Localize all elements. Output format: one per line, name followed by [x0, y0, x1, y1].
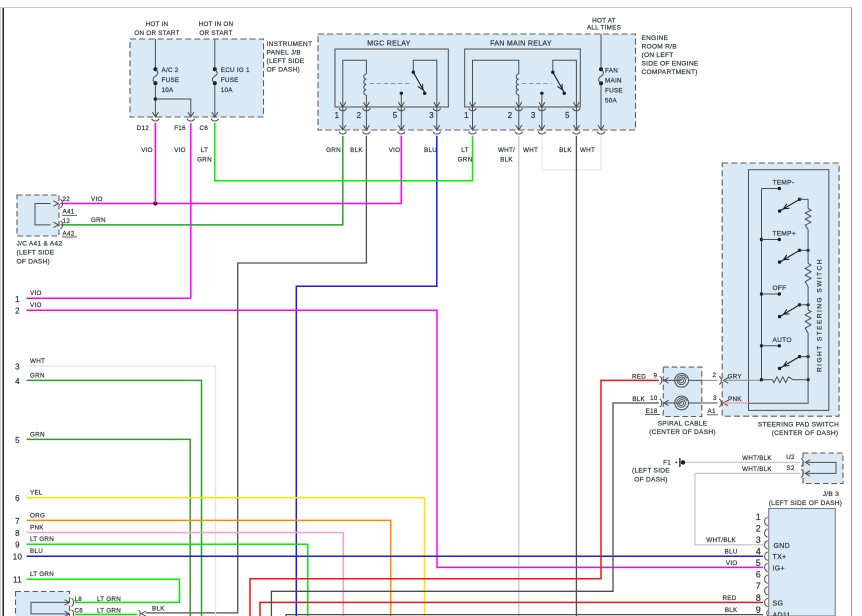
OFF switch blade	[778, 315, 781, 318]
pin 6 bracket	[765, 575, 768, 583]
wire LT GRN connector11 to J/C L8	[27, 579, 180, 602]
svg-text:GRN: GRN	[91, 217, 106, 224]
connector arrow F16	[188, 112, 194, 117]
svg-text:5: 5	[15, 436, 20, 445]
connector arrow C6	[212, 112, 218, 117]
TEMP+ switch blade	[778, 260, 781, 263]
svg-text:BLU: BLU	[424, 147, 437, 154]
pin 5 bracket	[765, 563, 768, 571]
FAN relay switch blade	[553, 72, 564, 92]
MGC relay switch blade	[413, 72, 424, 92]
MGC relay common pin 3	[413, 60, 437, 107]
svg-text:L8: L8	[75, 596, 83, 603]
pin U2 connector	[801, 458, 803, 466]
svg-text:SIDE OF ENGINE: SIDE OF ENGINE	[642, 61, 699, 68]
svg-text:11: 11	[13, 576, 22, 585]
svg-text:BLU: BLU	[725, 549, 738, 556]
resistor chain top link	[807, 199, 809, 208]
spiral coil 2	[675, 396, 689, 410]
svg-text:HOT IN: HOT IN	[146, 21, 169, 28]
svg-text:VIO: VIO	[91, 196, 103, 203]
pin 12 connector	[54, 222, 59, 227]
svg-text:WHT: WHT	[30, 358, 45, 365]
svg-text:4: 4	[756, 547, 761, 557]
svg-text:ORG: ORG	[30, 512, 45, 519]
svg-text:VIO: VIO	[389, 147, 401, 154]
svg-text:(CENTER OF DASH): (CENTER OF DASH)	[649, 429, 716, 436]
junction connector J/C L8-C6 box	[16, 592, 70, 616]
svg-text:(ON LEFT: (ON LEFT	[642, 52, 674, 59]
svg-text:8: 8	[756, 593, 761, 603]
svg-text:BLK: BLK	[725, 607, 738, 614]
svg-text:9: 9	[15, 541, 20, 550]
wire LT GRN from J/C C6	[75, 613, 138, 615]
svg-text:2: 2	[756, 524, 761, 534]
wire GRN MGC pin1 to J/C A42 pin 12	[61, 136, 343, 225]
wire GRY spiral to steering pin2	[702, 379, 718, 381]
svg-text:LT: LT	[461, 147, 468, 154]
spiral coil 1	[675, 374, 689, 388]
wire GRN connector4 down off page	[27, 380, 202, 616]
svg-text:BLU: BLU	[30, 548, 43, 555]
svg-text:FAN MAIN RELAY: FAN MAIN RELAY	[490, 41, 552, 48]
svg-text:FUSE: FUSE	[162, 77, 180, 84]
MGC pin stubs to R/B edge	[342, 107, 344, 130]
wire WHT/BLK FAN pin2 down off page	[518, 136, 520, 616]
pin 2 bracket	[765, 529, 768, 537]
MGC relay coil	[364, 74, 367, 95]
wire below A/C 2 fuse	[154, 85, 156, 117]
svg-text:GRN: GRN	[197, 157, 212, 164]
FAN relay coil branch pin 1	[473, 60, 519, 107]
svg-text:3: 3	[429, 111, 434, 120]
svg-text:BLK: BLK	[632, 396, 645, 403]
wire BLK MGC pin2 down-left-down to J/C C6	[146, 136, 367, 613]
MGC relay fixed contact pin 5	[400, 92, 403, 95]
svg-text:S2: S2	[786, 465, 794, 472]
junction dot branch	[154, 97, 158, 101]
FAN relay coil	[516, 74, 519, 95]
svg-text:(LEFT SIDE: (LEFT SIDE	[17, 250, 55, 257]
svg-text:MAIN: MAIN	[605, 78, 622, 85]
svg-text:LT GRN: LT GRN	[97, 596, 121, 603]
relay U2 FAN MAIN RELAY box	[465, 49, 581, 107]
resistor R2	[805, 264, 811, 287]
svg-text:RED: RED	[722, 595, 736, 602]
MGC relay coil branch pin 1	[343, 60, 367, 107]
bottom row bus dot	[760, 378, 763, 381]
svg-text:ECU IG 1: ECU IG 1	[221, 67, 250, 74]
svg-text:MGC RELAY: MGC RELAY	[367, 41, 410, 48]
page border left	[2, 7, 4, 616]
svg-text:J/B 3: J/B 3	[823, 491, 839, 498]
pin 1 bracket	[765, 517, 768, 525]
svg-text:FUSE: FUSE	[221, 77, 239, 84]
svg-text:F1: F1	[663, 460, 671, 467]
FAN relay actuation dashed line	[522, 83, 552, 85]
wire BLU connector10 to J/B3 TX+	[27, 555, 764, 557]
svg-text:LT GRN: LT GRN	[30, 536, 54, 543]
svg-text:PANEL J/B: PANEL J/B	[267, 50, 302, 57]
svg-text:J/C A41 & A42: J/C A41 & A42	[17, 241, 63, 248]
FAN relay common pin 5	[553, 60, 577, 107]
svg-text:WHT: WHT	[523, 147, 538, 154]
wire BLK spiral to steering pin3	[702, 402, 718, 404]
page border top	[0, 7, 852, 9]
svg-text:12: 12	[63, 218, 71, 225]
svg-text:STEERING PAD SWITCH: STEERING PAD SWITCH	[758, 422, 839, 429]
svg-text:VIO: VIO	[726, 560, 738, 567]
pin 7 bracket	[765, 587, 768, 595]
svg-text:WHT/BLK: WHT/BLK	[706, 537, 736, 544]
svg-text:HOT IN ON: HOT IN ON	[199, 21, 234, 28]
svg-text:IG+: IG+	[773, 565, 785, 572]
svg-text:1: 1	[335, 111, 340, 120]
svg-text:BLK: BLK	[500, 157, 513, 164]
wire WHT connector3 down off page	[27, 366, 216, 616]
svg-text:OF DASH): OF DASH)	[17, 259, 51, 266]
wire WHT FAN pin3 loop to FAN MAIN fuse	[542, 136, 601, 170]
wire YEL connector6 down off page	[27, 498, 425, 616]
svg-text:GRN: GRN	[458, 157, 473, 164]
wire branch to F16	[155, 99, 190, 117]
svg-text:INSTRUMENT: INSTRUMENT	[267, 41, 313, 48]
svg-text:6: 6	[756, 570, 761, 580]
wire feed into ECU IG 1 fuse	[214, 39, 216, 68]
J/C L8-C6 bus bar	[31, 602, 69, 614]
svg-text:VIO: VIO	[141, 147, 153, 154]
AUTO switch blade	[778, 367, 781, 370]
svg-text:10A: 10A	[221, 87, 234, 94]
svg-text:2: 2	[15, 307, 20, 316]
svg-text:GRY: GRY	[728, 373, 743, 380]
pin 8 bracket	[765, 598, 768, 606]
svg-text:ROOM R/B: ROOM R/B	[642, 44, 678, 51]
wire VIO connector2 to J/B3 IG+	[27, 310, 764, 567]
svg-text:9: 9	[654, 372, 658, 379]
svg-text:LT GRN: LT GRN	[97, 607, 121, 614]
svg-text:AUTO: AUTO	[773, 337, 792, 344]
svg-text:FAN: FAN	[605, 68, 618, 75]
spiral cable box	[663, 367, 702, 416]
MGC relay actuation dashed line	[370, 83, 413, 85]
inline connector on C6 wire	[139, 610, 141, 616]
svg-text:6: 6	[15, 494, 20, 503]
relay block box ENGINE ROOM R/B	[318, 34, 636, 130]
connector block J/B3	[769, 509, 836, 616]
wire WHT/BLK F1 to J/B3 U2	[685, 461, 800, 463]
wire BLK FAN pin5 down off page	[575, 136, 577, 616]
svg-text:3: 3	[713, 395, 717, 402]
svg-text:AD11: AD11	[773, 613, 791, 616]
svg-text:1: 1	[464, 111, 469, 120]
svg-text:RIGHT STEERING SWITCH: RIGHT STEERING SWITCH	[817, 258, 824, 372]
svg-text:E18: E18	[646, 408, 658, 415]
svg-text:TEMP+: TEMP+	[773, 230, 796, 237]
svg-text:YEL: YEL	[30, 490, 43, 497]
TEMP- switch blade	[778, 209, 781, 212]
J/C bus bar	[35, 204, 51, 225]
svg-text:TEMP-: TEMP-	[773, 179, 795, 186]
svg-text:3: 3	[15, 362, 20, 371]
svg-text:PNK: PNK	[30, 524, 44, 531]
svg-text:2: 2	[357, 111, 362, 120]
MGC relay pin arrows at relay box bottom	[340, 102, 346, 107]
svg-text:8: 8	[15, 529, 20, 538]
wire RED off page to J/B3 SG	[260, 602, 763, 616]
pin 3 connector	[719, 399, 721, 407]
svg-text:50A: 50A	[605, 98, 618, 105]
connector arrow D12	[152, 112, 158, 117]
page border right	[851, 8, 853, 616]
svg-text:10: 10	[13, 553, 23, 562]
svg-text:PNK: PNK	[728, 396, 742, 403]
svg-text:VIO: VIO	[174, 147, 186, 154]
svg-text:OF DASH): OF DASH)	[634, 477, 668, 484]
svg-text:(LEFT SIDE: (LEFT SIDE	[267, 58, 305, 65]
FAN pin stubs to R/B edge	[472, 107, 474, 130]
svg-text:COMPARTMENT): COMPARTMENT)	[642, 69, 698, 76]
FAN relay fixed contact pin 3	[540, 92, 543, 95]
wire feed into A/C 2 fuse	[154, 39, 156, 68]
svg-text:VIO: VIO	[30, 290, 42, 297]
svg-text:2: 2	[713, 372, 717, 379]
relay U1 MGC RELAY box	[335, 49, 448, 107]
FAN relay pivot contact	[551, 71, 554, 74]
svg-text:A1: A1	[708, 408, 716, 415]
relay pin cups below relay boxes	[339, 108, 347, 110]
svg-text:1: 1	[15, 295, 20, 304]
svg-text:5: 5	[565, 111, 570, 120]
svg-text:OFF: OFF	[773, 285, 787, 292]
svg-text:3: 3	[756, 535, 761, 545]
wire GRN connector5 down off page	[27, 439, 191, 616]
svg-text:22: 22	[63, 196, 71, 203]
svg-text:LT GRN: LT GRN	[30, 571, 54, 578]
fuse FAN MAIN 50A feed wire	[600, 34, 602, 68]
junction block J/B box (INSTRUMENT PANEL J/B)	[130, 39, 264, 117]
wire PNK into switch	[724, 402, 749, 404]
wire LT GRN connector9 down off page	[27, 544, 308, 616]
svg-text:3: 3	[531, 111, 536, 120]
J/B3 jumper bus	[806, 462, 836, 473]
svg-text:GRN: GRN	[30, 372, 45, 379]
wire BLK off page to J/B3 AD11	[286, 615, 763, 616]
wire below ECU IG 1 fuse	[214, 85, 216, 117]
svg-text:ALL TIMES: ALL TIMES	[587, 25, 621, 32]
resistor R4 (horizontal)	[773, 377, 794, 383]
wire PNK connector8 down off page	[27, 533, 344, 616]
svg-text:BLK: BLK	[559, 147, 572, 154]
svg-text:7: 7	[756, 581, 761, 591]
switch common bus	[761, 189, 763, 380]
svg-text:VIO: VIO	[30, 302, 42, 309]
svg-text:GND: GND	[774, 543, 790, 550]
svg-text:C6: C6	[75, 607, 84, 614]
svg-text:10A: 10A	[162, 87, 175, 94]
svg-text:2: 2	[508, 111, 513, 120]
pin S2 connector	[801, 470, 803, 478]
svg-text:(CENTER OF DASH): (CENTER OF DASH)	[772, 430, 839, 437]
svg-text:U2: U2	[786, 454, 795, 461]
svg-text:D12: D12	[137, 125, 150, 132]
svg-text:OF DASH): OF DASH)	[267, 67, 301, 74]
wire VIO F16 to connector 1	[190, 123, 192, 298]
svg-text:GRN: GRN	[326, 147, 341, 154]
svg-text:A41: A41	[63, 209, 75, 216]
svg-text:ENGINE: ENGINE	[642, 35, 669, 42]
svg-text:A42: A42	[63, 230, 75, 237]
pin 3 bracket	[765, 541, 768, 549]
svg-text:OR START: OR START	[199, 30, 232, 37]
fuse A/C 2 10A	[153, 67, 157, 71]
svg-text:HOT AT: HOT AT	[592, 18, 616, 25]
pin 10 connector	[660, 399, 662, 407]
MGC relay coil to pin 2	[365, 95, 367, 107]
steering pad switch box	[722, 163, 839, 416]
svg-text:10: 10	[650, 395, 658, 402]
svg-text:9: 9	[756, 605, 761, 615]
chain to PNK row	[749, 380, 809, 404]
fuse FAN MAIN 50A	[599, 67, 603, 71]
svg-text:SG: SG	[773, 600, 784, 607]
pin L8 connector	[65, 600, 70, 605]
junction dot VIO D12	[153, 201, 157, 205]
pin C6 connector	[65, 611, 70, 616]
svg-text:7: 7	[15, 517, 20, 526]
pin 2 connector	[719, 377, 721, 385]
svg-text:1: 1	[756, 512, 761, 522]
svg-text:WHT/BLK: WHT/BLK	[742, 466, 772, 473]
pin 4 bracket	[765, 552, 768, 560]
svg-text:WHT/BLK: WHT/BLK	[742, 455, 772, 462]
pin 22 connector	[54, 201, 59, 206]
FAN relay pin arrows at relay box bottom	[470, 102, 476, 107]
svg-text:ON OR START: ON OR START	[134, 30, 179, 37]
svg-text:A/C 2: A/C 2	[162, 67, 179, 74]
wire ORG connector7 down off page	[27, 520, 391, 616]
wire WHT/BLK J/B3 S2 to GND	[695, 473, 800, 544]
svg-text:TX+: TX+	[773, 554, 787, 561]
resistor R3	[805, 310, 811, 333]
svg-text:RED: RED	[632, 373, 646, 380]
wire RED spiral pin9 down-left off page	[250, 380, 659, 616]
MGC relay pivot contact	[412, 71, 415, 74]
svg-text:5: 5	[393, 111, 398, 120]
pin 9 bracket	[767, 610, 768, 616]
svg-text:C6: C6	[200, 125, 209, 132]
wire VIO MGC pin5 to J/C A41 pin 22	[61, 136, 402, 204]
wire GRY into switch	[724, 379, 762, 381]
fuse ECU IG 1 10A	[213, 67, 217, 71]
svg-text:(LEFT SIDE: (LEFT SIDE	[632, 468, 670, 475]
fuse FAN MAIN output stub	[600, 85, 602, 130]
svg-text:5: 5	[756, 558, 761, 568]
wire VIO connector1 to F16	[27, 297, 191, 299]
svg-text:SPIRAL CABLE: SPIRAL CABLE	[658, 421, 708, 428]
wire VIO D12 to junction	[154, 123, 156, 204]
svg-text:WHT: WHT	[580, 147, 595, 154]
resistor R1	[805, 209, 811, 230]
steering switch inner box	[749, 170, 829, 411]
wire LT GRN C6 to FAN pin1	[215, 123, 473, 181]
wire BLU MGC pin3 down-left-down off page	[296, 136, 437, 616]
pin 9 connector	[660, 377, 662, 385]
svg-text:BLK: BLK	[350, 147, 363, 154]
svg-text:FUSE: FUSE	[605, 88, 623, 95]
FAN relay coil to pin 2	[518, 95, 520, 107]
svg-text:F16: F16	[174, 125, 186, 132]
svg-text:(LEFT SIDE OF DASH): (LEFT SIDE OF DASH)	[769, 500, 843, 507]
svg-text:GRN: GRN	[30, 431, 45, 438]
svg-text:4: 4	[15, 377, 20, 386]
svg-text:WHT/: WHT/	[498, 147, 515, 154]
wire BLK spiral pin10 down-left off page	[271, 403, 658, 616]
junction block J/B3 jumper box	[803, 453, 843, 484]
svg-text:BLK: BLK	[152, 606, 165, 613]
svg-text:LT: LT	[201, 147, 208, 154]
junction connector J/C A41-A42 box	[17, 195, 59, 236]
